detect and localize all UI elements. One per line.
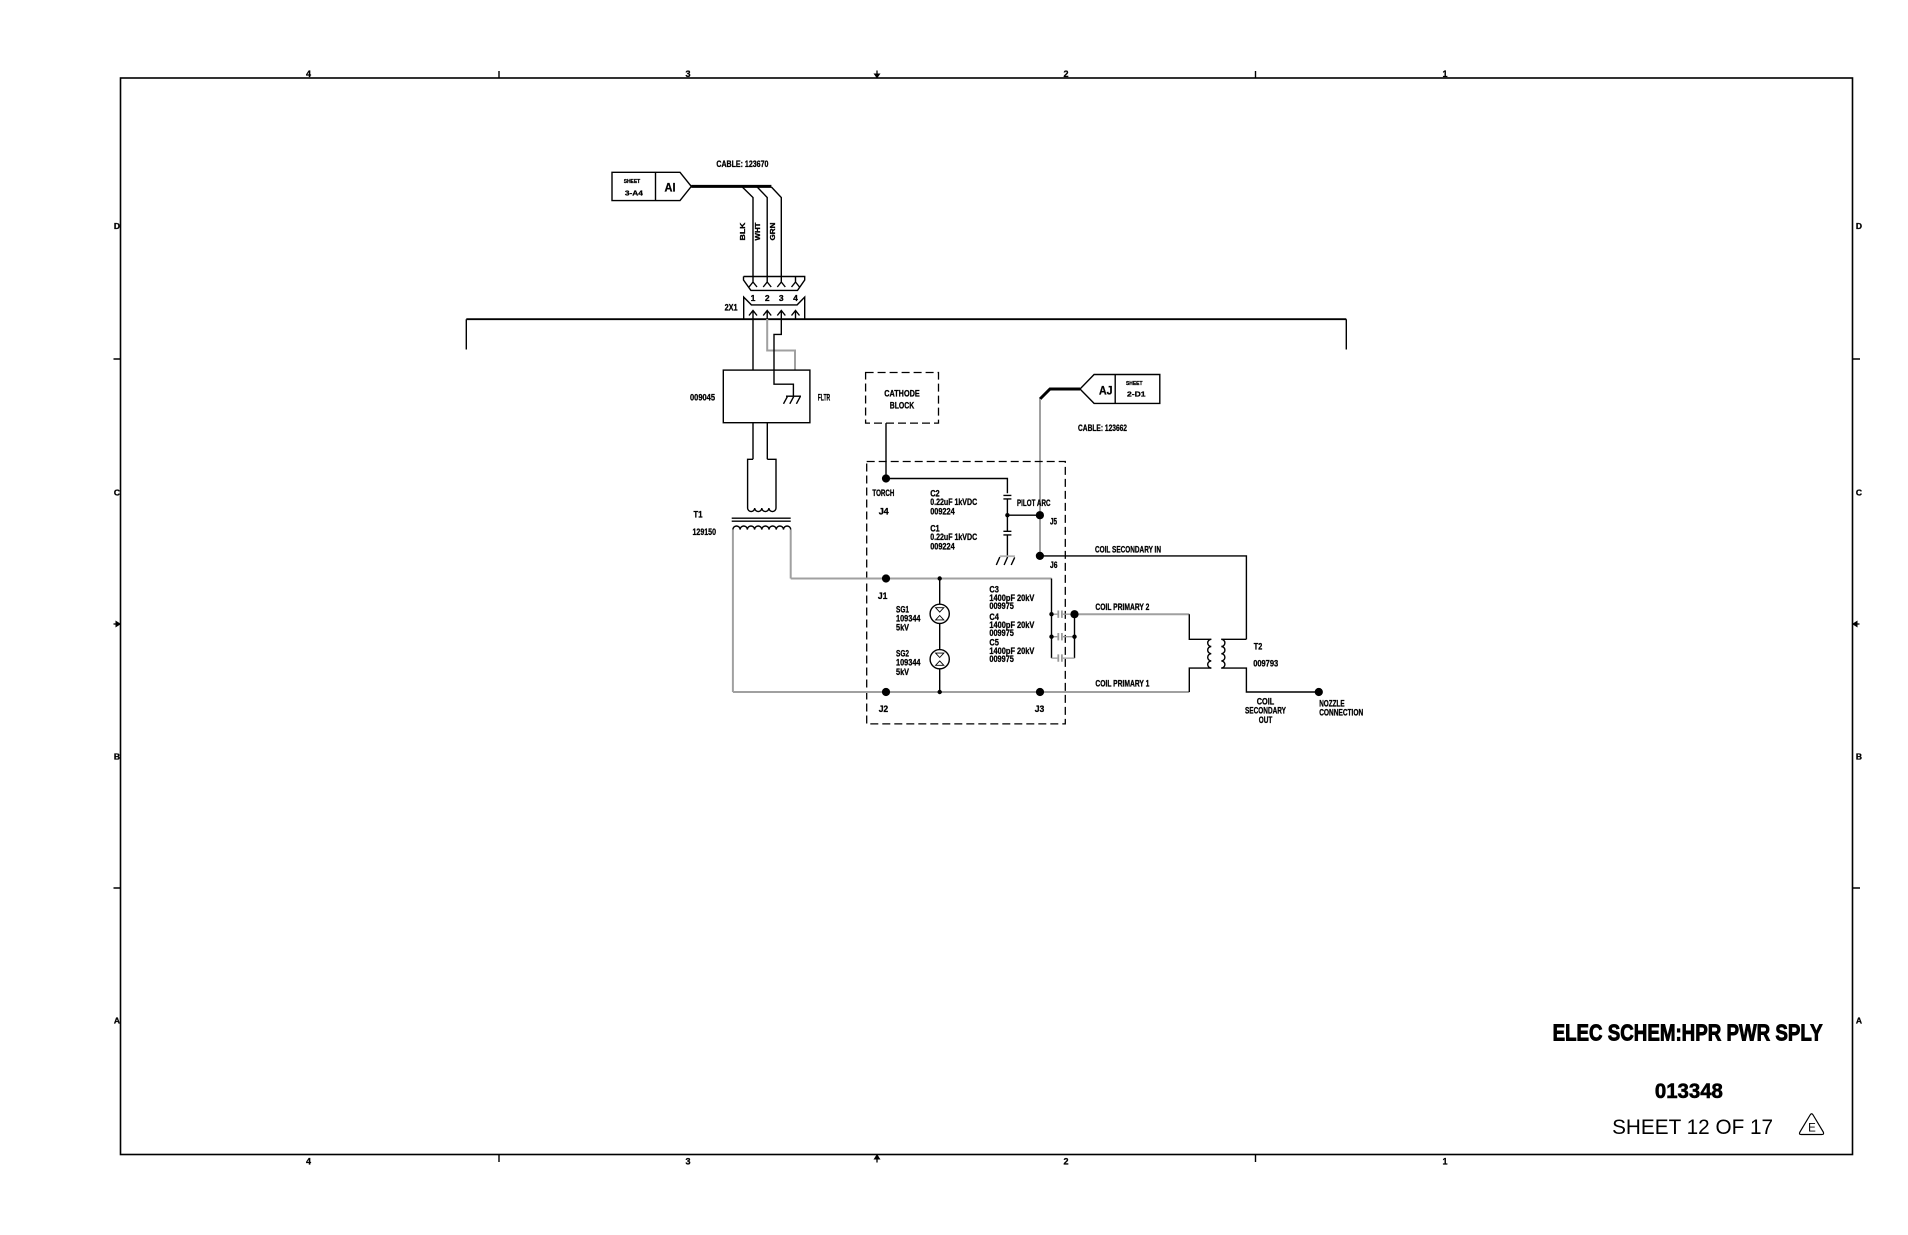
svg-text:BLK: BLK	[740, 223, 747, 241]
svg-text:FLTR: FLTR	[818, 393, 831, 403]
svg-text:A: A	[114, 1016, 120, 1026]
svg-text:J4: J4	[879, 507, 889, 517]
svg-text:1: 1	[1442, 1157, 1447, 1167]
svg-text:TORCH: TORCH	[872, 488, 894, 498]
svg-text:3-A4: 3-A4	[625, 188, 644, 197]
svg-text:129150: 129150	[693, 527, 717, 537]
svg-text:COIL SECONDARY IN: COIL SECONDARY IN	[1095, 545, 1161, 555]
svg-text:C: C	[114, 488, 120, 498]
svg-text:5kV: 5kV	[896, 667, 909, 677]
svg-text:AJ: AJ	[1099, 383, 1113, 397]
svg-text:5kV: 5kV	[896, 623, 909, 633]
svg-text:T2: T2	[1254, 642, 1263, 652]
svg-text:009793: 009793	[1253, 659, 1278, 669]
svg-text:WHT: WHT	[755, 222, 762, 241]
svg-text:BLOCK: BLOCK	[890, 401, 915, 411]
svg-text:3: 3	[685, 69, 690, 79]
svg-text:3: 3	[779, 293, 784, 303]
svg-text:CABLE: 123662: CABLE: 123662	[1078, 423, 1127, 433]
svg-text:009045: 009045	[690, 393, 715, 403]
svg-text:B: B	[1856, 752, 1862, 762]
svg-text:D: D	[1856, 221, 1862, 231]
svg-text:ELEC SCHEM:HPR PWR SPLY: ELEC SCHEM:HPR PWR SPLY	[1553, 1020, 1823, 1046]
svg-text:J3: J3	[1035, 704, 1045, 714]
svg-text:AI: AI	[665, 180, 676, 194]
svg-text:D: D	[114, 221, 120, 231]
svg-text:SHEET: SHEET	[624, 179, 641, 185]
svg-text:C: C	[1856, 488, 1862, 498]
svg-text:CATHODE: CATHODE	[884, 389, 920, 399]
svg-text:SHEET: SHEET	[1126, 381, 1143, 387]
svg-text:3: 3	[685, 1157, 690, 1167]
svg-text:1: 1	[751, 293, 756, 303]
svg-text:OUT: OUT	[1259, 715, 1273, 725]
svg-text:2: 2	[765, 293, 770, 303]
svg-text:J5: J5	[1050, 517, 1057, 527]
svg-text:009224: 009224	[930, 541, 955, 551]
svg-text:A: A	[1856, 1016, 1862, 1026]
svg-text:2X1: 2X1	[725, 303, 738, 313]
svg-text:013348: 013348	[1655, 1080, 1723, 1103]
svg-text:4: 4	[306, 1157, 311, 1167]
svg-text:4: 4	[793, 293, 798, 303]
svg-text:J6: J6	[1050, 560, 1058, 570]
svg-text:PILOT ARC: PILOT ARC	[1017, 498, 1051, 508]
svg-text:J2: J2	[879, 704, 889, 714]
svg-text:1: 1	[1442, 69, 1447, 79]
svg-text:GRN: GRN	[770, 223, 777, 241]
svg-text:COIL PRIMARY 2: COIL PRIMARY 2	[1095, 602, 1149, 612]
svg-text:CABLE: 123670: CABLE: 123670	[716, 159, 768, 169]
svg-text:B: B	[114, 752, 120, 762]
svg-text:CONNECTION: CONNECTION	[1319, 708, 1363, 718]
svg-text:4: 4	[306, 69, 311, 79]
svg-text:2-D1: 2-D1	[1127, 390, 1146, 399]
svg-text:009224: 009224	[930, 506, 955, 516]
svg-text:2: 2	[1063, 69, 1068, 79]
svg-text:E: E	[1808, 1123, 1816, 1135]
svg-text:COIL PRIMARY 1: COIL PRIMARY 1	[1095, 679, 1149, 689]
svg-text:J1: J1	[878, 591, 888, 601]
svg-text:009975: 009975	[989, 628, 1014, 638]
svg-text:009975: 009975	[989, 601, 1014, 611]
svg-text:SHEET 12 OF 17: SHEET 12 OF 17	[1612, 1116, 1773, 1139]
svg-text:009975: 009975	[989, 654, 1014, 664]
svg-text:T1: T1	[694, 510, 703, 520]
svg-text:2: 2	[1063, 1157, 1068, 1167]
